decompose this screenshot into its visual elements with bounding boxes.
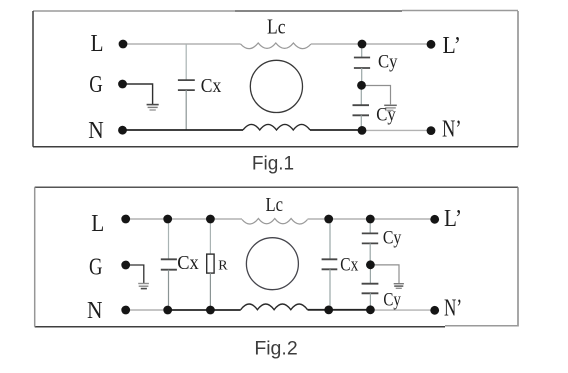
capacitor Cx1 plates (Fig.2): [161, 259, 177, 269]
svg-text:N: N: [88, 118, 104, 144]
wire Cy lower to N node (Fig.1): [360, 115, 362, 130]
node junction middle of Cy chain (Fig.1): [357, 81, 366, 90]
svg-text:Cx: Cx: [177, 252, 199, 274]
Fig.2 enclosure box: [35, 187, 518, 327]
wire L line left segment (Fig.1): [123, 43, 241, 45]
svg-text:N’: N’: [442, 117, 462, 143]
capacitor Cy upper branch wire (Fig.2): [369, 219, 371, 233]
svg-text:Cy: Cy: [383, 290, 401, 310]
ground symbol G (Fig.1): [147, 105, 159, 110]
svg-text:G: G: [89, 72, 103, 98]
inductor Lc bottom winding (Fig.2): [241, 304, 308, 310]
wire N line Cx1 to inductor (Fig.2): [168, 309, 241, 311]
node junction middle of Cy chain (Fig.2): [366, 260, 375, 269]
terminal node L' (Fig.2): [430, 215, 439, 224]
node junction N/R (Fig.2): [206, 306, 215, 315]
wire N line left segment (Fig.2): [126, 309, 168, 311]
inductor Lc bottom winding (Fig.1): [243, 124, 310, 130]
terminal node L input (Fig.1): [119, 40, 128, 49]
node junction L/Cy (Fig.2): [366, 215, 375, 224]
node junction L/Cx1 (Fig.2): [163, 215, 172, 224]
wire Cy upper to middle node (Fig.1): [361, 68, 363, 85]
wire L line right segment (Fig.2): [308, 218, 435, 220]
node junction bottom of Cy chain (Fig.1): [358, 126, 367, 135]
svg-text:L’: L’: [444, 206, 462, 232]
node junction N/Cx2 (Fig.2): [324, 306, 333, 315]
svg-text:N’: N’: [444, 296, 462, 322]
Fig.1 enclosure box: [33, 11, 518, 147]
wire N line left segment (Fig.1): [123, 129, 244, 131]
wire L line left segment (Fig.2): [126, 218, 242, 220]
ground symbol right (Fig.1): [384, 105, 397, 110]
capacitor Cx2 lower wire (Fig.2): [329, 269, 331, 310]
wire node to L' terminal (Fig.1): [362, 43, 431, 45]
svg-text:Cy: Cy: [378, 53, 398, 73]
wire Cy lower to N node (Fig.2): [369, 293, 371, 310]
capacitor Cx2 plates (Fig.2): [322, 259, 338, 269]
inductor Lc top winding (Fig.2): [242, 219, 308, 225]
svg-text:G: G: [89, 255, 103, 281]
capacitor Cx branch lower wire (Fig.1): [185, 90, 187, 130]
svg-text:Cy: Cy: [376, 106, 396, 126]
svg-text:Fig.1: Fig.1: [252, 154, 294, 175]
capacitor Cx1 upper wire (Fig.2): [168, 219, 170, 259]
capacitor Cx2 upper wire (Fig.2): [329, 219, 331, 259]
wire G to ground (Fig.2): [126, 265, 144, 283]
capacitor Cx1 lower wire (Fig.2): [168, 270, 170, 310]
node junction N/Cx1 (Fig.2): [163, 306, 172, 315]
capacitor Cy lower plates (Fig.1): [353, 105, 370, 115]
wire Cy upper to middle node (Fig.2): [369, 243, 371, 264]
node junction top of Cy chain (Fig.1): [358, 40, 367, 49]
svg-text:L’: L’: [443, 33, 462, 59]
terminal node N' (Fig.2): [430, 306, 439, 315]
svg-text:N: N: [87, 298, 103, 324]
terminal node N input (Fig.2): [121, 306, 130, 315]
svg-text:Fig.2: Fig.2: [254, 337, 297, 359]
wire node to N' terminal (Fig.1): [362, 129, 431, 131]
svg-text:Lc: Lc: [267, 15, 286, 39]
terminal node N input (Fig.1): [118, 126, 127, 135]
resistor R upper wire (Fig.2): [209, 219, 211, 254]
ground symbol right (Fig.2): [394, 284, 404, 289]
wire middle node to ground (Fig.2): [370, 265, 399, 283]
svg-text:L: L: [91, 31, 104, 57]
capacitor Cx branch upper wire (Fig.1): [185, 44, 187, 80]
capacitor Cy upper branch wire (Fig.1): [361, 44, 363, 58]
node junction L/R (Fig.2): [206, 215, 215, 224]
wire N line inductor to Cy (Fig.2): [308, 309, 371, 311]
choke core circle (Fig.1): [250, 60, 302, 112]
node junction N/Cy (Fig.2): [366, 305, 375, 314]
inductor Lc top winding (Fig.1): [241, 43, 311, 49]
capacitor Cx plates (Fig.1): [178, 80, 195, 90]
terminal node G input (Fig.2): [121, 261, 130, 270]
wire N line mid segment (Fig.1): [310, 129, 362, 131]
terminal node N' (Fig.1): [427, 126, 436, 135]
svg-text:L: L: [91, 211, 104, 237]
terminal node G input (Fig.1): [118, 80, 127, 89]
wire middle node to Cy lower (Fig.1): [360, 85, 362, 105]
terminal node L input (Fig.2): [121, 215, 130, 224]
wire middle node to ground (Fig.1): [362, 86, 391, 105]
capacitor Cy upper plates (Fig.2): [362, 233, 378, 243]
svg-text:Cx: Cx: [340, 255, 359, 275]
wire N node to N' terminal (Fig.2): [370, 309, 434, 311]
capacitor Cy lower plates (Fig.2): [362, 284, 379, 294]
resistor R body (Fig.2): [207, 254, 214, 273]
choke core circle (Fig.2): [246, 238, 298, 290]
resistor R lower wire (Fig.2): [209, 273, 211, 310]
terminal node L' (Fig.1): [427, 40, 436, 49]
svg-text:Lc: Lc: [266, 194, 284, 216]
wire middle node to Cy lower (Fig.2): [369, 265, 371, 284]
ground symbol G (Fig.2): [138, 284, 149, 289]
svg-text:Cy: Cy: [383, 228, 402, 248]
svg-text:Cx: Cx: [201, 75, 222, 97]
capacitor Cy upper plates (Fig.1): [354, 58, 370, 69]
wire G to ground (Fig.1): [123, 84, 153, 104]
wire L line mid segment (Fig.1): [311, 43, 362, 45]
node junction L/Cx2 (Fig.2): [324, 215, 333, 224]
svg-text:R: R: [218, 259, 228, 274]
